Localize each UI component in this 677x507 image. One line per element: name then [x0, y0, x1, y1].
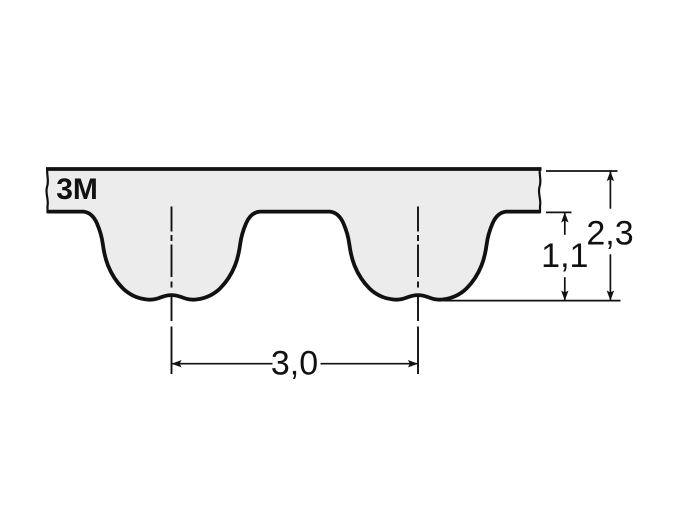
arrowhead 3,0 right [408, 360, 418, 367]
right break edge [539, 168, 541, 214]
arrowhead 3,0 left [172, 360, 182, 367]
arrowhead 2,3 down [607, 291, 614, 301]
dimension line 1,1 [564, 213, 566, 301]
extension line bottom (for 1,1 and 2,3) [444, 300, 621, 302]
centerline tooth 1 [171, 207, 173, 375]
arrowhead 2,3 up [607, 171, 614, 181]
centerline tooth 2 [417, 207, 419, 375]
belt bottom profile outline [48, 212, 541, 300]
dimension line 3,0 [172, 363, 419, 365]
svg-text:3M: 3M [56, 173, 98, 206]
extension line root (for 1,1) [546, 211, 572, 213]
belt top edge [46, 167, 542, 171]
svg-text:1,1: 1,1 [541, 237, 588, 275]
belt body fill [48, 169, 541, 300]
extension line top (for 2,3) [546, 170, 618, 172]
arrowhead 1,1 up [561, 212, 568, 222]
dimension line 2,3 [609, 171, 611, 301]
arrowhead 1,1 down [561, 291, 568, 301]
svg-text:3,0: 3,0 [271, 344, 318, 382]
left break edge [46, 168, 48, 214]
svg-text:2,3: 2,3 [586, 214, 633, 252]
